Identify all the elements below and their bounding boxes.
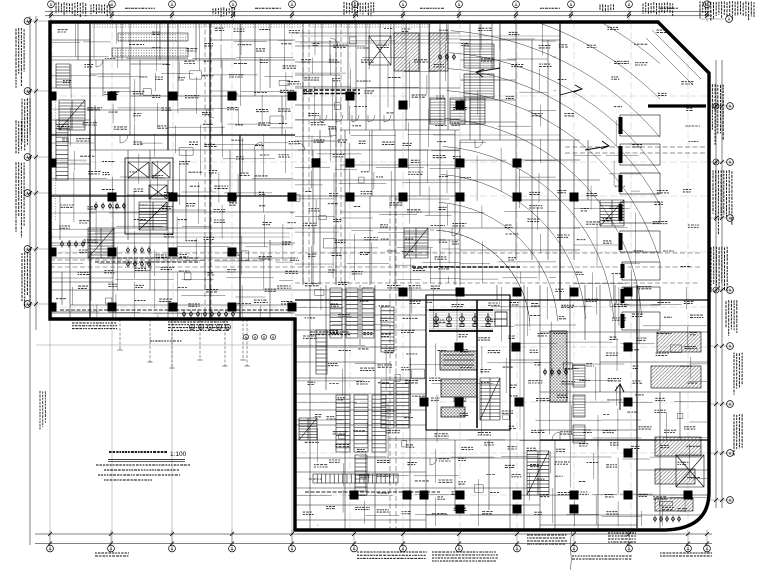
fixture row T7 bbox=[183, 311, 235, 318]
thick wall bar right bbox=[648, 104, 706, 107]
right dimension lines bbox=[716, 60, 722, 508]
bottom axis bubbles bbox=[47, 545, 711, 552]
stair S2 bbox=[59, 100, 85, 130]
top dim text cluster C bbox=[213, 7, 235, 17]
right dim text 6 bbox=[726, 300, 737, 336]
bottom text cluster A bbox=[357, 552, 427, 558]
stair S8 bottom right bbox=[527, 451, 549, 495]
fixture row T6 bbox=[439, 54, 456, 61]
elevator E1 bbox=[128, 162, 149, 178]
right dim text 1 bbox=[707, 84, 723, 145]
pump room wall bbox=[426, 295, 510, 430]
equipment skid 2 bbox=[441, 379, 477, 397]
pump control box bbox=[495, 312, 507, 326]
room labels illegible bbox=[56, 27, 703, 514]
sub-partitions right upper bbox=[460, 24, 556, 283]
bottom text cluster D bbox=[572, 556, 632, 559]
corridor dashed H bbox=[50, 253, 700, 283]
bearing walls bbox=[50, 22, 709, 528]
hatched rect M4 bbox=[655, 498, 693, 511]
rack ladder wing top bbox=[330, 288, 374, 338]
pipe run vertical dark bbox=[476, 300, 478, 428]
top dim text cluster A bbox=[56, 2, 86, 17]
top dim text cluster B bbox=[91, 4, 110, 17]
stair S4 core bbox=[139, 202, 167, 230]
ramp arrow 1 bbox=[560, 85, 582, 95]
ramp arrow 4 bbox=[615, 384, 624, 410]
storage racks bbox=[336, 395, 386, 452]
bottom text cluster B bbox=[527, 535, 567, 544]
right dim text 2 bbox=[713, 170, 732, 234]
hatched room H3 bbox=[464, 44, 494, 68]
top dim text cluster G bbox=[700, 1, 754, 21]
top dim text cluster D bbox=[344, 2, 374, 17]
top dimension lines bbox=[45, 12, 712, 16]
svg-text:1:100: 1:100 bbox=[170, 451, 187, 458]
AHU X-box bbox=[369, 36, 391, 65]
building outline wall bbox=[50, 22, 709, 530]
chamfer inner lines bbox=[646, 30, 701, 85]
below-wall text cluster 1 bbox=[72, 323, 117, 329]
rack ladder A bbox=[381, 307, 394, 352]
stair S9 right bbox=[600, 200, 624, 226]
structural columns bbox=[48, 92, 693, 514]
pipe dark band 4 bbox=[60, 309, 290, 311]
sub-partitions left wing bbox=[52, 24, 293, 317]
equipment skid 3 bbox=[441, 407, 465, 417]
misc equipment boxes bbox=[105, 37, 682, 506]
right inner bubbles bbox=[713, 103, 719, 293]
sub-partitions center upper bbox=[295, 24, 460, 283]
pump header rails bbox=[429, 310, 493, 331]
left dim text D bbox=[22, 252, 30, 309]
ramp arrow 3 bbox=[476, 68, 500, 77]
left wall leaders bbox=[44, 110, 50, 302]
note line 4 bbox=[104, 479, 152, 481]
right dim text 5 bbox=[734, 414, 742, 455]
pipe dark band 5 bbox=[305, 491, 440, 493]
left axis bubbles bbox=[24, 18, 31, 308]
stair S1 bbox=[56, 64, 70, 88]
escalator crosshatch bbox=[550, 331, 567, 402]
fixture row T1 bbox=[95, 203, 126, 210]
bottom dimension ticks bbox=[48, 532, 709, 546]
stair S6 pump bbox=[480, 378, 500, 420]
elevator bank outline bbox=[125, 158, 173, 234]
insulation band left bbox=[54, 100, 58, 220]
note line 1 bbox=[96, 464, 190, 466]
top dim text cluster E bbox=[600, 4, 614, 12]
grid axis lines bbox=[50, 22, 709, 530]
grid extension lines in cutout bbox=[36, 319, 292, 543]
top axis grid stems bbox=[51, 7, 707, 22]
elevator E2 bbox=[152, 162, 170, 178]
fixture row T2 bbox=[61, 241, 85, 248]
left dim text A bbox=[16, 28, 24, 88]
hatched rect M5 bbox=[657, 332, 701, 352]
corridor dashed V bbox=[205, 22, 396, 530]
X-box ramp marking bbox=[676, 455, 704, 487]
horizontal ladder rack bbox=[313, 474, 398, 483]
stair S5 center bbox=[404, 228, 428, 258]
fixture cluster WC bbox=[127, 247, 151, 268]
rack ladder C bbox=[396, 380, 409, 428]
stair S3 bbox=[88, 228, 114, 258]
pipe dark band 2 bbox=[412, 266, 520, 268]
right axis stems bbox=[700, 106, 734, 500]
left dim text B bbox=[22, 98, 30, 150]
hatch boxes right-mid bbox=[573, 365, 585, 443]
below-wall circled row 2 bbox=[243, 334, 275, 339]
right chamfer bubble bbox=[726, 16, 733, 23]
top dim text cluster F bbox=[643, 2, 673, 15]
fixture row T8 bbox=[0, 0, 1, 1]
insulation band top bbox=[92, 24, 302, 29]
stair S7 wing bbox=[299, 418, 317, 440]
duct band D2 bbox=[112, 48, 188, 57]
riser cluster mid bbox=[310, 332, 350, 335]
pipe thin runs top bbox=[50, 36, 560, 430]
pumps bbox=[434, 313, 491, 327]
parking stalls right bbox=[619, 115, 661, 330]
left dimension lines bbox=[30, 16, 36, 545]
door swings bbox=[96, 38, 617, 465]
top axis bubbles bbox=[48, 1, 711, 8]
top dimension ticks bbox=[49, 12, 709, 18]
ramp arrow 2 bbox=[585, 141, 609, 150]
top dim numbers bbox=[125, 7, 155, 9]
chamfer ticks bbox=[664, 22, 701, 59]
bottom axis stems bbox=[50, 530, 707, 551]
equipment skid 1 bbox=[440, 351, 477, 370]
interior partition walls bbox=[50, 22, 709, 530]
chiller units bbox=[430, 98, 485, 124]
elevator E3 bbox=[149, 185, 167, 199]
note line 2 bbox=[104, 469, 179, 471]
right dim text 4 bbox=[734, 353, 742, 395]
sub-partitions bottom wing bbox=[297, 287, 707, 526]
hatched room H1 bbox=[394, 33, 419, 71]
bottom leader squiggle bbox=[571, 505, 578, 570]
insulation band top2 bbox=[310, 24, 432, 29]
hatched rect M2 bbox=[655, 437, 701, 456]
hatched room H4 bbox=[464, 74, 494, 98]
fixture row T5 bbox=[654, 516, 681, 523]
bottom text cluster E bbox=[95, 553, 129, 556]
left axis stems bbox=[24, 21, 50, 304]
sub-partitions right strip bbox=[574, 120, 640, 300]
hatched rect M1 bbox=[651, 366, 701, 388]
below-wall leader text bbox=[150, 340, 181, 342]
fixture row T4 bbox=[544, 369, 568, 376]
below-wall text cluster 2 bbox=[168, 322, 229, 330]
right dimension ticks bbox=[714, 104, 724, 502]
ramp lane arcs bbox=[437, 0, 660, 323]
hatched rect M3 bbox=[655, 469, 695, 484]
rack ladder extra bbox=[316, 330, 367, 495]
right dim text 3 bbox=[711, 246, 727, 292]
left dimension ticks bbox=[28, 19, 38, 306]
left dim text E bbox=[40, 391, 45, 430]
pipe dark band 1 bbox=[303, 90, 360, 94]
left dim text C bbox=[16, 162, 24, 237]
note line 3 bbox=[98, 474, 180, 476]
pipe dark band 3 bbox=[90, 258, 200, 262]
bottom dimension lines bbox=[35, 534, 712, 544]
duct band D1 bbox=[118, 33, 188, 41]
rack ladder B bbox=[381, 380, 394, 428]
pipe stubs below left wing bbox=[120, 319, 247, 368]
below-wall circled row bbox=[189, 324, 230, 329]
left dim text F bbox=[16, 120, 21, 153]
bottom text cluster F bbox=[660, 553, 712, 556]
aisle dashed lines right bbox=[565, 147, 706, 153]
rack left bbox=[56, 120, 68, 180]
ramp inner dashed arc bbox=[430, 230, 530, 330]
drawing title bbox=[109, 451, 167, 453]
hatched room H2 bbox=[429, 33, 448, 71]
bottom text cluster C bbox=[608, 533, 636, 542]
pipe stub ticks bbox=[118, 350, 250, 368]
right axis bubbles bbox=[727, 103, 734, 504]
